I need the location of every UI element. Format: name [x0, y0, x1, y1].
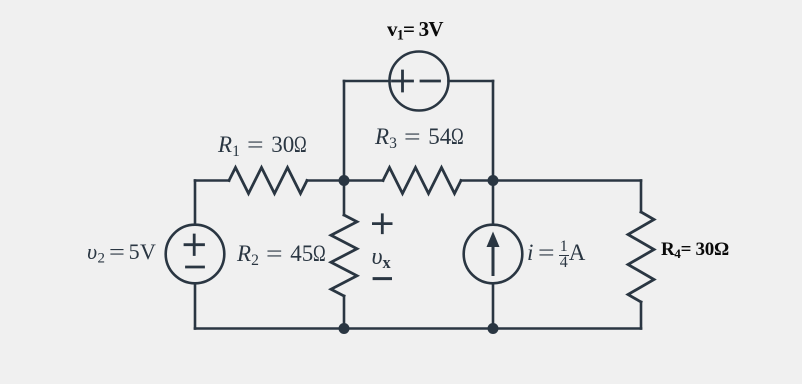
current source arrow head [487, 232, 500, 248]
minus sign of vx polarity [374, 277, 390, 280]
wire: V2 circle top up to mid-wire corner [194, 181, 197, 225]
wire: node A up to top-left of V1 loop [343, 81, 346, 181]
wire: node D to node C [344, 327, 493, 330]
V2 minus sign [187, 266, 204, 269]
wire: top-right corner down to node B [492, 81, 495, 181]
V1 plus sign [393, 71, 413, 91]
label vx [372, 245, 391, 269]
wire: R3 to node B [461, 179, 493, 182]
label R2 = 45 ohm [237, 242, 330, 265]
node B junction dot [488, 175, 499, 186]
resistor R1 zigzag [229, 168, 307, 194]
plus sign of vx polarity [373, 215, 391, 233]
wire: current source bottom stub to node D [492, 283, 495, 328]
resistor R4 zigzag [628, 212, 654, 302]
wire: bottom-left corner up to V2 circle [194, 283, 197, 328]
wire: R4 bottom stub [640, 302, 643, 329]
V1 minus sign [421, 80, 440, 83]
current source I circle [464, 225, 523, 284]
resistor R3 zigzag [383, 168, 461, 194]
wire: node A to R3 [344, 179, 383, 182]
wire: R2 top stub from node A [343, 181, 346, 216]
resistor R2 zigzag [331, 215, 357, 296]
label R1 = 30 ohm [218, 133, 311, 156]
wire: node B to top-right corner of R4 branch [493, 179, 641, 182]
label i = 1/4 A [527, 241, 585, 269]
wire: R1 to node A [307, 179, 344, 182]
wire: R2 bottom stub to node C [343, 296, 346, 329]
wire: current source top stub from node B [492, 181, 495, 225]
node D junction dot [488, 323, 499, 334]
current source arrow shaft [492, 245, 495, 275]
label v2 = 5V [87, 241, 156, 263]
wire: R4 top stub [640, 181, 643, 213]
label v1=3V [387, 19, 443, 40]
node A junction dot [339, 175, 350, 186]
voltage source V2 circle [166, 225, 225, 284]
wire: V1 circle to top-right corner [449, 80, 494, 83]
voltage source V1 circle [390, 52, 449, 111]
wire: node C to bottom-left corner [195, 327, 344, 330]
wire: left stub from top-left corner to R1 [195, 179, 229, 182]
wire: top-left to V1 circle [344, 80, 390, 83]
wire: bottom right corner to node D [493, 327, 641, 330]
node C junction dot [339, 323, 350, 334]
label R3 = 54 ohm [375, 125, 468, 148]
V2 plus sign [185, 235, 204, 255]
label R4 = 30 ohm [661, 240, 729, 259]
